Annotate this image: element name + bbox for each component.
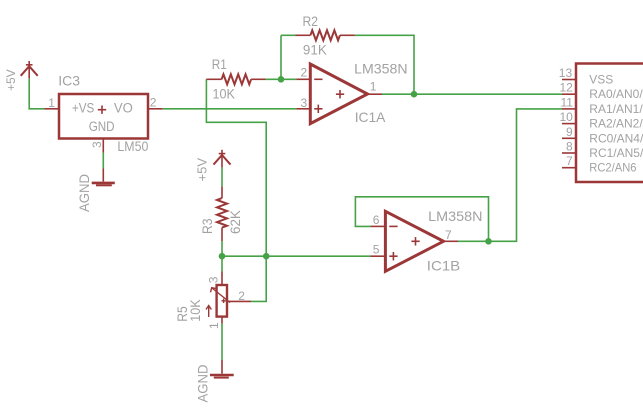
svg-text:1: 1 <box>207 322 221 329</box>
wire R5 to AGND <box>221 324 223 361</box>
wire node to pot wiper <box>251 256 266 301</box>
junction node IC1B output <box>485 238 492 245</box>
svg-text:3: 3 <box>301 96 308 110</box>
svg-text:VO: VO <box>114 101 133 116</box>
junction node R1/R2/pin2 <box>278 76 285 83</box>
wire IC3 pin2 to IC1A pin3 <box>163 108 297 110</box>
svg-text:R3: R3 <box>199 218 215 234</box>
svg-text:RC2/AN6: RC2/AN6 <box>589 161 637 175</box>
wire IC1B output to PIC pin11 <box>458 109 562 241</box>
svg-text:RA1/AN1/: RA1/AN1/ <box>589 102 643 116</box>
potentiometer R5 <box>206 272 251 324</box>
svg-text:10K: 10K <box>213 86 236 102</box>
pin 11 stub <box>562 108 576 110</box>
svg-text:6: 6 <box>373 213 380 227</box>
svg-text:IC1A: IC1A <box>355 109 386 125</box>
wire +5V to R3 <box>221 168 223 187</box>
svg-text:11: 11 <box>561 95 574 109</box>
svg-text:5: 5 <box>373 243 380 257</box>
svg-text:RC1/AN5/: RC1/AN5/ <box>589 146 643 160</box>
svg-text:LM50: LM50 <box>117 138 148 154</box>
pin 9 stub <box>562 137 576 139</box>
svg-text:RA0/AN0/: RA0/AN0/ <box>589 87 643 101</box>
wire R2 right to output node <box>355 35 414 94</box>
IC3 LM50 box <box>59 94 148 139</box>
svg-text:RC0/AN4/: RC0/AN4/ <box>589 131 643 145</box>
wire R1 left to divider node <box>206 79 266 256</box>
svg-text:IC1B: IC1B <box>427 258 460 274</box>
pin 2 stub IC3 <box>148 108 163 110</box>
supply +5V (left) <box>21 61 38 78</box>
wire divider to IC1B pin5 <box>222 255 370 257</box>
svg-text:12: 12 <box>560 81 574 95</box>
svg-text:R2: R2 <box>303 13 319 29</box>
svg-text:8: 8 <box>566 140 573 154</box>
resistor R1 <box>206 74 265 84</box>
svg-text:10: 10 <box>560 110 574 124</box>
wire node to pot top <box>221 256 223 271</box>
junction node divider right <box>263 253 270 260</box>
wire node to R2 left <box>281 34 296 36</box>
pin 7 stub IC1B output <box>444 240 459 242</box>
svg-text:9: 9 <box>566 125 573 139</box>
pin 7 stub <box>562 167 576 169</box>
svg-text:+5V: +5V <box>195 158 210 182</box>
ground AGND (left) <box>92 169 115 186</box>
wire R1 to IC1A pin2 <box>266 78 297 80</box>
wire feedback IC1B <box>355 197 488 242</box>
svg-text:VSS: VSS <box>589 73 613 87</box>
svg-text:3: 3 <box>207 276 221 283</box>
svg-text:+VS: +VS <box>72 101 94 116</box>
svg-text:R1: R1 <box>212 56 227 72</box>
wire IC3 pin3 to AGND <box>102 153 104 169</box>
svg-text:AGND: AGND <box>76 174 92 212</box>
op-amp IC1B <box>385 211 443 271</box>
svg-text:+5V: +5V <box>4 69 18 91</box>
pin 6 stub IC1B <box>370 225 385 227</box>
pin 1 stub IC1A output <box>368 93 383 95</box>
svg-text:RA2/AN2/: RA2/AN2/ <box>589 117 643 131</box>
wire feedback up from node <box>280 35 282 79</box>
svg-text:LM358N: LM358N <box>354 61 407 77</box>
svg-text:91K: 91K <box>303 42 328 58</box>
svg-text:2: 2 <box>238 289 245 303</box>
supply +5V (middle) <box>214 150 231 168</box>
resistor R2 <box>296 30 355 40</box>
svg-text:LM358N: LM358N <box>428 208 482 224</box>
pin 8 stub <box>562 152 576 154</box>
junction node output/feedback <box>411 91 418 98</box>
svg-text:10K: 10K <box>187 299 203 322</box>
svg-text:7: 7 <box>566 154 573 168</box>
svg-text:3: 3 <box>90 141 104 148</box>
pin 3 stub IC3 <box>102 139 104 153</box>
svg-text:1: 1 <box>370 80 377 94</box>
pin 13 stub <box>562 79 576 81</box>
pin 3 stub IC1A <box>296 108 310 110</box>
op-amp IC1A <box>310 64 367 124</box>
ground AGND (bottom) <box>210 360 234 378</box>
pin 2 stub IC1A <box>296 78 310 80</box>
svg-text:GND: GND <box>89 119 115 134</box>
IC2 PIC box <box>576 64 643 183</box>
svg-text:IC3: IC3 <box>58 72 80 88</box>
pin 12 stub <box>562 93 576 95</box>
pin 1 stub IC3 <box>44 108 59 110</box>
svg-text:62K: 62K <box>227 209 243 234</box>
svg-text:2: 2 <box>301 65 308 79</box>
wire R3 to divider node <box>221 241 223 256</box>
svg-text:13: 13 <box>559 66 573 80</box>
junction node divider left <box>219 253 226 260</box>
wire IC1A output to PIC pin12 <box>382 93 562 95</box>
svg-text:AGND: AGND <box>194 365 210 403</box>
pin 10 stub <box>562 123 576 125</box>
svg-text:1: 1 <box>48 96 55 110</box>
svg-text:7: 7 <box>445 228 452 242</box>
resistor R3 <box>217 187 227 242</box>
pin 5 stub IC1B <box>370 255 385 257</box>
svg-text:2: 2 <box>150 95 157 109</box>
wire +5V to IC3 pin1 <box>29 79 44 109</box>
